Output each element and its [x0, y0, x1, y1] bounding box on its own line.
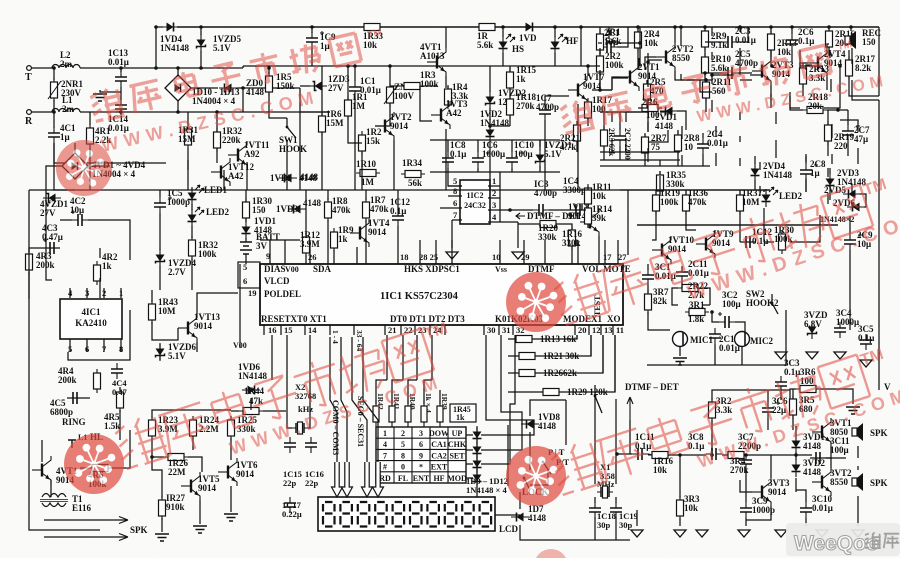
wire bridge out [191, 87, 218, 89]
capacitor 2C1 [600, 37, 617, 53]
wire LED1 top [191, 188, 193, 190]
wire 2C4 down [702, 154, 704, 166]
resistor 1R33 [360, 24, 384, 31]
wire DT to col4 [424, 380, 432, 404]
wire 2R2 down [599, 72, 601, 90]
watermark logo top-left [56, 140, 112, 196]
transistor 2VT4 [808, 49, 827, 77]
wire 2C7 top [840, 120, 858, 132]
wire down-left [54, 143, 75, 190]
junction [586, 64, 590, 68]
wire 2VD1 down [648, 130, 668, 142]
wire pin tick [444, 325, 446, 335]
wire ZNR2 top [389, 66, 391, 87]
wire 2VT3 base [740, 79, 752, 81]
wire 3R5 down [792, 415, 794, 430]
junction [836, 108, 840, 112]
wire 2C8 top [805, 154, 807, 162]
wire [31, 67, 54, 69]
capacitor 3C3 [775, 376, 787, 392]
wire 1VZD2 bottom [489, 108, 491, 126]
wire 2R4 top [637, 27, 639, 32]
wire 2VT1 base [612, 77, 620, 90]
junction [501, 25, 505, 29]
wire 4VD bridge top [74, 143, 76, 153]
watermark text bottom-left [112, 319, 459, 471]
wire 1R14 down [587, 224, 589, 228]
wire gnd drop 637 [636, 510, 638, 526]
watermark text top-left [88, 26, 387, 123]
wire 2VD4 down [759, 186, 761, 196]
wire 2R18 left [790, 96, 803, 110]
wire 4R6 right [112, 430, 130, 468]
wire 2R21 down [576, 141, 578, 152]
capacitor 1C16 [305, 437, 317, 453]
resistor 1R13 (16k) [512, 336, 536, 343]
wire rail y152 r [600, 151, 680, 153]
wire 1R23 down [151, 438, 153, 450]
wire 1R26b left [508, 372, 519, 374]
wire 1R43 top [151, 290, 153, 302]
wire drop 581 [580, 27, 582, 66]
wire IC1 top pin 545 [544, 240, 546, 264]
wire right edge down [878, 27, 880, 96]
varistor ZNR2 [387, 83, 394, 107]
junction [154, 66, 158, 70]
capacitor 3C2 [718, 312, 735, 328]
wire drop 243 [242, 88, 244, 112]
resistor 1R21 [515, 353, 539, 360]
wire 2R8 top [677, 130, 679, 135]
transformer T1 [40, 494, 68, 507]
wire 1R19 down [652, 211, 656, 240]
wire rail y190 ext [620, 189, 770, 191]
wire DTMF drop [629, 420, 631, 454]
zener 1VZD5 [197, 34, 206, 52]
wire 1C8 top [447, 140, 449, 152]
wire 4R5 down [119, 410, 121, 440]
wire 2R19 top [831, 124, 833, 138]
arrow DTMF-DET [516, 213, 525, 219]
diode 1VD4 [161, 23, 179, 32]
wire rail y66 right [486, 65, 600, 67]
wire [80, 111, 330, 113]
wire 1R2 down [361, 151, 363, 190]
keypad vline [429, 427, 431, 483]
wire IC2 p7 [452, 219, 462, 221]
wire 1VT7 down [577, 104, 579, 190]
wire 2R5-2R6 [638, 100, 647, 108]
junction [388, 64, 392, 68]
resistor 1R29 [539, 389, 563, 396]
wire 1R6 top [321, 66, 323, 116]
wire SEG bus 2 [363, 337, 378, 462]
wire 2VD3 down [827, 193, 829, 204]
capacitor 3C4 [834, 321, 852, 338]
wire COM bus 1 [330, 337, 337, 462]
wire pin tick [414, 325, 416, 335]
resistor 1R3 [400, 83, 424, 90]
wire 2C1 right [617, 27, 628, 47]
diode 2VD5 [843, 190, 861, 199]
wire 1R9 down [333, 250, 335, 264]
wire 3C7 down [745, 470, 747, 502]
wire 1R1 top [347, 66, 349, 100]
transistor 4VT1b [32, 456, 51, 484]
wire 2R11 top [705, 80, 707, 82]
resistor 1R5 [266, 72, 273, 96]
junction [710, 73, 714, 77]
wire 1R16 down [571, 246, 573, 264]
wire 2R10-2R11 [711, 76, 713, 84]
wire SPK1 down [857, 446, 859, 458]
capacitor 1C10 [506, 151, 524, 168]
ground IC2 pin4 [512, 252, 524, 260]
wire right edge long [878, 100, 880, 390]
microphone MIC2 [735, 332, 750, 347]
ground bottom 744 [738, 530, 750, 538]
wire MIC1 down [679, 347, 681, 356]
wire 1R15 bottom [509, 88, 511, 100]
wire pin7 4IC1 [103, 339, 105, 352]
wire COM bus 2 [341, 337, 347, 462]
LCD box [318, 497, 495, 531]
wire 1VZD6 [159, 344, 161, 360]
wire 2R6-2VD1 [660, 107, 662, 109]
ground 1VT6 [224, 514, 238, 521]
wire 1R12 top [305, 190, 307, 235]
wire 1R1 down [348, 116, 362, 143]
bridge rectifier 1D10-1D13 [165, 75, 191, 101]
resistor 4R3 [26, 250, 33, 274]
wire [200, 51, 202, 68]
wire pin6 4IC1 [86, 339, 88, 352]
wire 2VT1 base [612, 78, 628, 90]
wire 1R20 to 1R16 [556, 224, 572, 230]
wire IC1 top pin 524 [523, 240, 525, 264]
wire 1R8 down [327, 220, 329, 240]
wire IC2 p8 [448, 195, 462, 197]
junction [176, 66, 180, 70]
wire key row1 [466, 434, 473, 436]
resistor 1R23 [149, 416, 156, 440]
wire 1R5 to SW1 [269, 110, 287, 118]
bridge rectifier 4VD1-4VD4 [62, 153, 88, 179]
w3 [635, 111, 637, 113]
wire 2VT2 base [645, 57, 656, 70]
junction [769, 25, 773, 29]
wire 2VD5-2VD6 [860, 194, 866, 207]
zener 4VZD1 [43, 194, 61, 203]
wire IC2 p4 [488, 221, 518, 223]
wire top rung bl [152, 410, 231, 418]
wire [53, 100, 55, 112]
resistor 1R17 [585, 98, 592, 122]
wire LED1-LED2 [191, 204, 193, 210]
crystal X1 [597, 486, 613, 498]
wire rail y166 r [600, 165, 710, 167]
wire IC10 down [511, 168, 513, 172]
wire 1R29 right [559, 335, 615, 392]
wire 1R7 top [365, 190, 367, 200]
wire 2VT2 emit [681, 74, 700, 80]
wire 2C2 down [625, 138, 627, 152]
transistor 1VT9 [696, 230, 715, 258]
wire 1R25 down [230, 438, 232, 460]
arrow SPK2 [44, 534, 128, 541]
wire 2VD3 top [827, 168, 829, 177]
LED HF [551, 34, 568, 54]
resistor 1R45 box [450, 404, 476, 422]
diode 1VD8 [521, 420, 539, 429]
resistor 2R7 [642, 133, 649, 157]
diode 3VD2 [792, 459, 801, 477]
capacitor 1C18 [589, 502, 601, 518]
switch on XO line [594, 395, 602, 413]
resistor 3R3 [677, 496, 684, 520]
wire 1C5 top [159, 190, 161, 197]
wire 2R18 right [824, 66, 840, 108]
resistor 1R31 [185, 125, 192, 149]
diode 1VD6 [242, 386, 260, 395]
transistor 2VT1 [620, 63, 639, 91]
arrow LCD 0 [332, 462, 343, 497]
transistor 3VT1 [812, 418, 831, 446]
resistor 1R [475, 24, 499, 31]
watermark url top-right [696, 72, 890, 126]
wire 1R29 left [508, 391, 543, 393]
wire IC3 left [510, 209, 533, 211]
arrow LCD 3 [373, 462, 384, 497]
wire DT drop 432 [431, 335, 433, 380]
transistor 2VT3 [752, 57, 771, 85]
junction [267, 66, 271, 70]
resistor 1R2 [359, 131, 366, 155]
wire [216, 148, 218, 163]
wire 2C1 right [618, 43, 640, 66]
wire 2VD5 in [851, 184, 853, 194]
wire 3VT3 base [740, 480, 752, 492]
transistor 4VT1 [427, 48, 446, 76]
ground 3C4 [834, 352, 846, 360]
wire pin8 4IC1 [120, 339, 122, 352]
junction [673, 25, 677, 29]
resistor 2R5 [644, 80, 651, 104]
transistor 3VT2 [812, 468, 831, 496]
ground bottom 702 [696, 530, 708, 538]
wire K01 drop [481, 335, 534, 435]
resistor 4R5 [117, 388, 124, 412]
wire 1R20 left [518, 223, 540, 225]
wire 2C5 left [712, 74, 734, 76]
resistor keypad col 408 [405, 400, 411, 427]
resistor 3R4 [724, 452, 748, 459]
wire pin5 4IC1 [69, 339, 71, 352]
wire 4R6 left [80, 467, 88, 469]
wire 3C11 right [826, 457, 846, 459]
capacitor 4C3 [43, 238, 60, 254]
resistor 2R9 [702, 27, 709, 51]
wire 1C10 top [511, 140, 513, 152]
wire IC2 p7 down [451, 220, 453, 248]
ground bottom 781 [775, 530, 787, 538]
wire pin4 4IC1 [69, 288, 71, 298]
wire 2R16 down [829, 50, 831, 58]
resistor 2R22 [678, 285, 702, 292]
wire 1D7 down [520, 525, 630, 540]
junction [770, 64, 774, 68]
wire 2VT4 coll [827, 44, 829, 49]
wire 1VD2 down [489, 152, 491, 190]
wire 3R3 down [679, 518, 681, 526]
wire DT drop 403 [402, 335, 404, 380]
wire 2R3 top [603, 112, 605, 130]
resistor 2R1 [597, 30, 604, 54]
wire 1R6 down [321, 132, 323, 190]
wire 1VT13 emitter [196, 342, 198, 352]
wire LCD to 1D7 [495, 514, 520, 516]
transistor 2VT2 [656, 43, 675, 71]
transistor 1VT3 [431, 101, 450, 129]
wire IC1 pin wrap [68, 310, 130, 360]
wire IC8 down [447, 168, 449, 172]
junction [154, 25, 158, 29]
watermark partial logo bottom [534, 549, 568, 563]
wire 3R6 left [790, 389, 796, 399]
wire 2R9-2R10 [704, 47, 706, 57]
wire 3C1 top [647, 264, 649, 270]
resistor 3R2 [709, 398, 716, 422]
ground bottom 858 [852, 530, 864, 538]
wire col5 [439, 390, 441, 404]
zener 1VZD2 [486, 91, 495, 109]
wire [53, 68, 55, 80]
junction [353, 64, 357, 68]
resistor 3R5 [790, 395, 797, 419]
capacitor 2C11 [676, 266, 688, 282]
transistor 1VT11 [228, 141, 247, 169]
junction [508, 208, 512, 212]
wire caps bottom rail [430, 171, 560, 173]
transistor 1VT4 [350, 219, 369, 247]
resistor 2R19 [825, 121, 832, 145]
diode 1VD1 [242, 221, 251, 239]
wire 1C4 left [570, 209, 586, 211]
capacitor 2C7 [842, 124, 860, 141]
wire rail y112 [300, 111, 330, 113]
wire 1VT4 down [356, 247, 358, 264]
junction [241, 86, 245, 90]
resistor 1R20 [536, 221, 560, 228]
w2 [771, 65, 773, 67]
resistor 2R6 [638, 105, 662, 112]
wire 4VT1b collector [41, 440, 43, 462]
wire to 3C2 [712, 312, 719, 322]
wire 1R17 down [587, 118, 589, 126]
wire 3C1-3R7 [647, 285, 649, 293]
wire pin16 drop [271, 335, 273, 380]
wire 2C8 top [805, 156, 807, 164]
transistor 1VT12 [211, 158, 230, 186]
wire 2C8 down [805, 178, 807, 192]
wire left col A [46, 190, 52, 280]
wire 1R12 down [305, 255, 307, 264]
switch SW1 HOOK [286, 126, 296, 138]
resistor 2R13 (10k) [768, 30, 775, 54]
wire key row2 [466, 449, 473, 451]
varistor ZNR2 stroke [384, 86, 397, 104]
wire 3R1 right [702, 304, 710, 306]
wire 2C6 top [791, 27, 793, 34]
wire 1R24 down [192, 438, 194, 450]
junction [704, 78, 708, 82]
wire 1C1 down [354, 97, 356, 190]
wire 1VZD2 top [489, 66, 491, 92]
resistor IR27 [159, 496, 166, 520]
wire 2R3 top [611, 112, 613, 122]
wire rail y66 [243, 65, 486, 67]
capacitor 1C8 [442, 152, 454, 168]
wire rail y160 r [600, 159, 680, 161]
capacitor 1C15 [284, 437, 296, 453]
wire osc right [615, 399, 617, 484]
wire 4R3 to IC [28, 272, 30, 299]
varistor 2NR1 [51, 78, 58, 102]
capacitor IC3 [533, 204, 549, 216]
resistor 2R18 [803, 107, 827, 114]
wire 1VD8 top [530, 400, 566, 416]
capacitor 2C4 [697, 138, 709, 154]
resistor 2R2 [597, 52, 604, 76]
wire 1C7 down [544, 120, 546, 190]
wire 1R35 topw [659, 160, 661, 166]
wire 1R37 top [739, 190, 741, 195]
wire IC1 top pin 328 [327, 240, 329, 264]
WeeQoo watermark [786, 523, 900, 556]
resistor 1R16 (330k) [569, 226, 576, 250]
wire long y225 [637, 224, 838, 226]
wire 2C2 top [619, 112, 621, 130]
transistor 1VT6 [218, 458, 237, 486]
wire IC2 p1 up [499, 172, 501, 186]
wire pin1 4IC1 [120, 288, 122, 298]
wire IC1 top pin 398 [397, 240, 399, 264]
wire 1R19 top [655, 190, 657, 195]
wire join 1VD2 [490, 125, 510, 127]
capacitor 3C7 [740, 454, 752, 470]
IC 1IC2 24C32 box [460, 180, 490, 224]
junction [553, 25, 557, 29]
wire 2R18 right [827, 109, 848, 111]
junction [346, 64, 350, 68]
wire row c [722, 454, 728, 456]
wire 2R4 bottom [637, 48, 639, 70]
wire 2C2 down [619, 146, 621, 160]
wire IR27 down [161, 518, 163, 532]
wire 2VD3 down [829, 190, 831, 200]
watermark text center [551, 175, 898, 327]
wire 2VD2 down [739, 158, 741, 166]
wire IC3 right [549, 209, 570, 211]
capacitor 3C8 [706, 448, 722, 460]
switch P/T [542, 461, 551, 474]
wire diode col bus [507, 425, 509, 486]
op-amp 4IC1 KA2410 box [60, 299, 122, 339]
wire 2R19 down [831, 154, 833, 164]
junction [176, 110, 180, 114]
wire [216, 112, 218, 132]
wire [489, 141, 491, 152]
